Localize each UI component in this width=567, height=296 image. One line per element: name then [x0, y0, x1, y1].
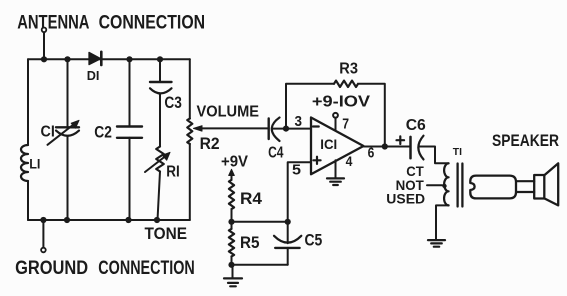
svg-text:CI: CI	[41, 123, 55, 140]
node center tap dot	[442, 184, 446, 188]
speaker flange	[534, 175, 544, 199]
wire pin 7	[335, 118, 337, 130]
resistor R4	[229, 180, 234, 209]
svg-text:CONNECTION: CONNECTION	[98, 258, 195, 279]
capacitor C2	[117, 127, 142, 138]
svg-text:ICI: ICI	[320, 136, 337, 152]
node ground junction	[40, 217, 46, 223]
diode D1	[89, 52, 101, 65]
capacitor C1 variable	[48, 120, 80, 145]
svg-text:CONNECTION: CONNECTION	[99, 13, 206, 34]
capacitor C5	[274, 222, 301, 265]
node R5 bottom junction	[228, 262, 234, 268]
svg-text:+9V: +9V	[221, 153, 249, 170]
wire pin 3	[286, 128, 311, 130]
transformer T1 primary	[444, 163, 449, 205]
antenna terminal	[42, 28, 47, 33]
node C1 top junction	[64, 56, 70, 62]
ground R5	[224, 265, 242, 287]
svg-text:R2: R2	[200, 134, 220, 153]
wire left edge lower	[27, 181, 29, 220]
wire feedback left	[286, 84, 334, 129]
wire C3 to R1	[159, 94, 161, 147]
svg-text:TI: TI	[453, 146, 462, 158]
svg-text:C6: C6	[406, 117, 426, 134]
supply terminal pin 7	[333, 113, 338, 118]
svg-text:C4: C4	[268, 145, 283, 162]
svg-text:C2: C2	[94, 123, 112, 141]
svg-text:4: 4	[346, 153, 353, 169]
svg-text:TONE: TONE	[145, 225, 188, 243]
svg-text:R3: R3	[339, 61, 358, 78]
wire feedback right	[359, 84, 385, 147]
resistor R5	[229, 222, 234, 265]
wire C1 bottom lead	[67, 136, 69, 220]
speaker driver body	[470, 176, 516, 199]
svg-text:USED: USED	[386, 191, 425, 207]
label CT NOT USED	[386, 163, 425, 206]
wire pin 4	[335, 160, 337, 178]
svg-text:C3: C3	[164, 94, 182, 112]
wire C4 to input node	[273, 128, 287, 130]
wire left edge upper	[27, 59, 29, 145]
wire R1 bottom lead	[158, 172, 161, 221]
wire antenna lead	[43, 33, 45, 60]
node antenna junction	[41, 56, 47, 62]
svg-text:R5: R5	[240, 234, 260, 252]
node C2 top junction	[126, 56, 132, 62]
wire pin 5	[288, 162, 311, 222]
label C6 plus	[397, 136, 405, 144]
svg-text:DI: DI	[87, 68, 100, 83]
speaker cone	[544, 163, 558, 205]
ground T1	[428, 240, 445, 247]
wire right edge lower	[189, 144, 191, 220]
wire output	[364, 146, 411, 148]
speaker neck	[516, 181, 534, 192]
wire R5 to C5 bottom	[232, 264, 288, 266]
wire wiper to C4	[200, 127, 269, 129]
op-amp IC1	[311, 118, 364, 175]
wire bottom bus	[28, 219, 190, 221]
wire center tap pointer	[427, 184, 443, 186]
supply arrow	[229, 169, 235, 180]
wire top bus	[28, 58, 190, 60]
svg-text:+9-IOV: +9-IOV	[312, 94, 371, 111]
wire R4 to node	[231, 209, 233, 221]
resistor R3	[334, 81, 358, 87]
capacitor C4	[269, 118, 280, 142]
svg-text:6: 6	[368, 145, 375, 161]
wire T1 to ground	[436, 205, 449, 240]
svg-text:5: 5	[292, 161, 301, 178]
svg-text:SPEAKER: SPEAKER	[492, 132, 559, 150]
node C2 bottom junction	[125, 217, 131, 223]
svg-text:ANTENNA: ANTENNA	[17, 13, 90, 34]
node R1 bottom junction	[154, 217, 160, 223]
node input junction	[283, 126, 289, 132]
wire node to C5	[232, 221, 288, 223]
wire C2 top lead	[129, 59, 131, 126]
svg-text:LI: LI	[29, 155, 40, 171]
node C3 top junction	[157, 56, 163, 62]
resistor R1 variable	[145, 147, 170, 173]
svg-text:RI: RI	[166, 163, 180, 180]
node output junction	[382, 143, 388, 149]
node R4 R5 junction	[228, 219, 234, 225]
svg-text:VOLUME: VOLUME	[197, 103, 260, 120]
wire C6 to T1	[419, 147, 449, 164]
svg-text:R4: R4	[240, 190, 263, 208]
ground op-amp	[327, 178, 344, 185]
capacitor C6	[411, 136, 424, 160]
svg-text:3: 3	[295, 113, 303, 130]
wire C2 bottom lead	[129, 138, 131, 220]
node C5 top junction	[285, 219, 291, 225]
wire C3 top lead	[159, 59, 161, 82]
svg-text:GROUND: GROUND	[15, 258, 88, 279]
transformer T1 core	[458, 164, 463, 207]
node C1 bottom junction	[64, 217, 70, 223]
svg-text:7: 7	[342, 116, 349, 133]
inductor L1	[21, 145, 28, 181]
wire right edge upper	[189, 59, 191, 118]
potentiometer R2	[187, 119, 202, 144]
wire ground lead	[42, 220, 44, 247]
capacitor C3	[150, 82, 172, 93]
svg-text:C5: C5	[305, 232, 323, 250]
ground terminal	[41, 248, 46, 253]
wire C1 top lead	[67, 59, 69, 127]
